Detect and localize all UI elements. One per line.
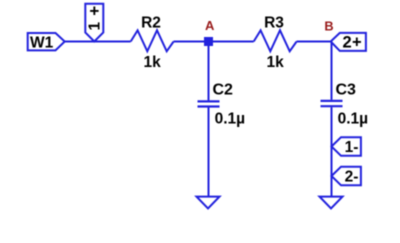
svg-text:A: A	[205, 18, 215, 33]
resistor R3	[254, 30, 297, 51]
wire node A down to C2	[208, 42, 210, 101]
svg-text:C3: C3	[336, 82, 357, 99]
svg-text:R2: R2	[141, 15, 161, 32]
ground (left)	[197, 197, 220, 209]
svg-text:2-: 2-	[345, 168, 359, 185]
probe tag 2+	[331, 33, 366, 52]
svg-text:C2: C2	[213, 82, 234, 99]
svg-text:R3: R3	[264, 15, 284, 32]
svg-text:0.1µ: 0.1µ	[215, 111, 245, 128]
capacitor C2	[198, 101, 220, 106]
svg-text:0.1µ: 0.1µ	[338, 111, 368, 128]
wire C3 to ground	[331, 107, 333, 196]
svg-text:1-: 1-	[345, 139, 359, 156]
svg-text:B: B	[324, 19, 333, 34]
capacitor C3	[321, 101, 343, 106]
svg-text:2+: 2+	[342, 34, 362, 52]
wire C2 to ground	[208, 108, 210, 197]
svg-text:1k: 1k	[143, 54, 161, 71]
svg-text:1: 1	[87, 22, 104, 31]
net tag W1	[28, 33, 65, 52]
svg-text:W1: W1	[30, 35, 54, 52]
svg-text:1k: 1k	[266, 54, 284, 71]
wire W1 to R2	[65, 41, 131, 43]
ground (right)	[320, 197, 343, 209]
wire node B down to C3	[331, 42, 333, 100]
probe tag 2-	[332, 167, 361, 186]
svg-text:+: +	[89, 2, 99, 21]
wire R2 to node A	[174, 41, 209, 43]
wire R3 to node B	[297, 41, 331, 43]
wire node A to R3	[209, 41, 254, 43]
probe tag 1+	[85, 2, 103, 42]
resistor R2	[131, 30, 174, 51]
node A junction	[204, 37, 213, 46]
probe tag 1-	[332, 137, 361, 156]
